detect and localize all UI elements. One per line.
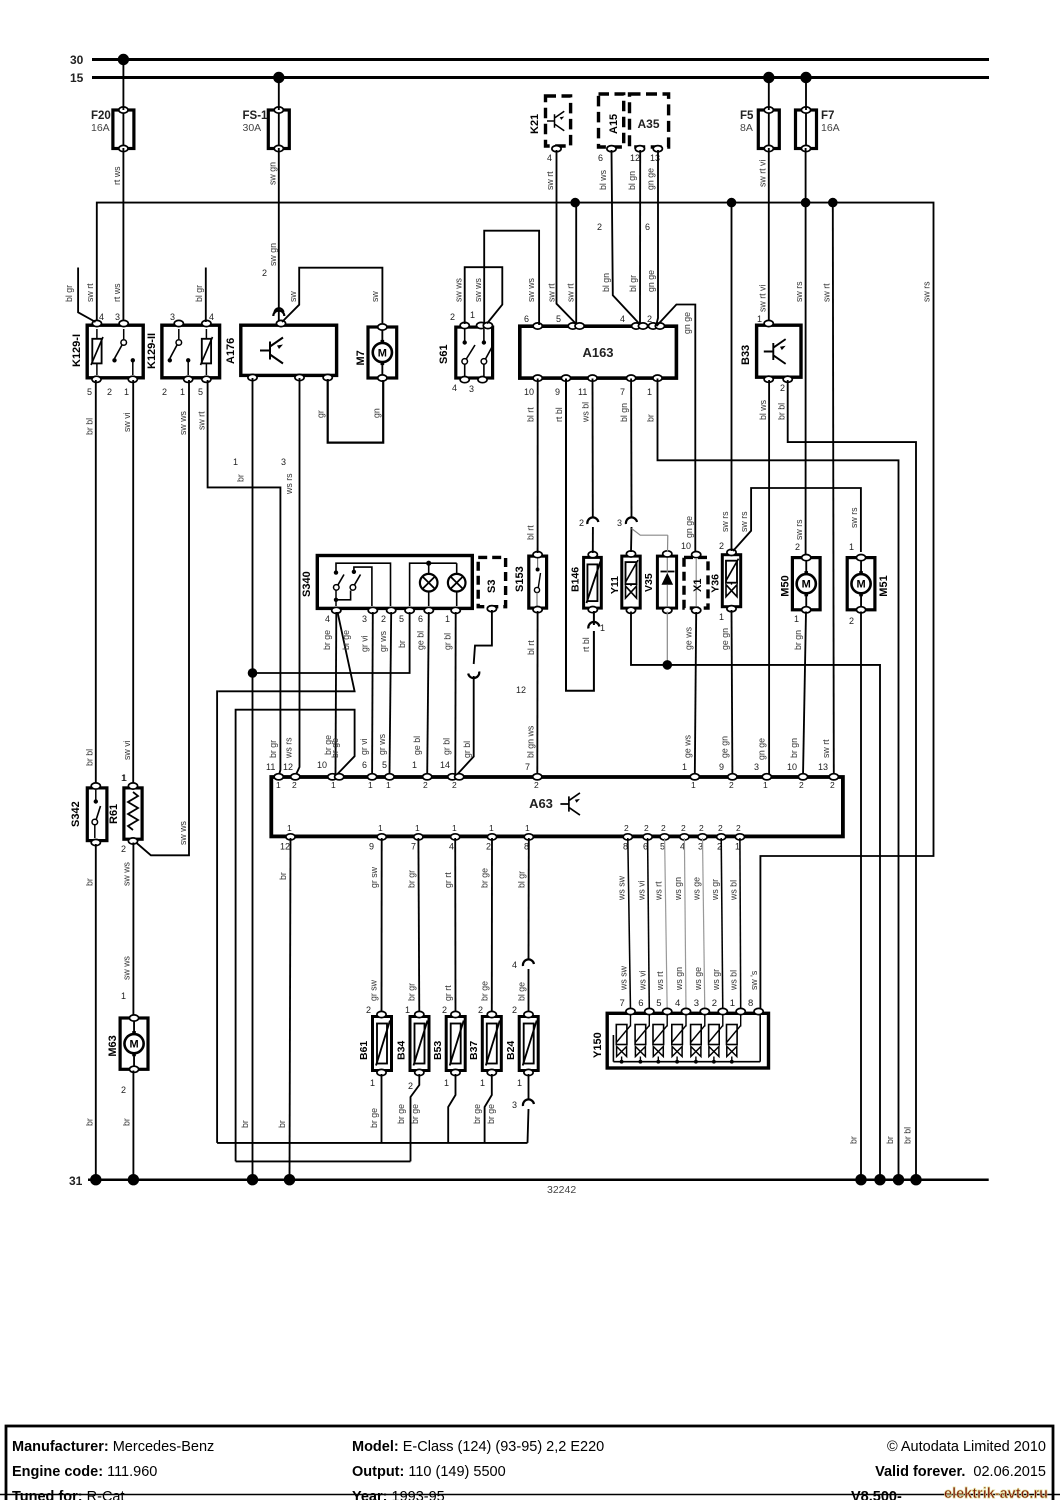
svg-text:1: 1 (525, 823, 530, 833)
svg-text:gr rt: gr rt (443, 985, 453, 1001)
svg-text:sw 's: sw 's (749, 970, 759, 990)
svg-text:1: 1 (276, 780, 281, 790)
svg-text:1: 1 (287, 823, 292, 833)
sensor B146 (570, 552, 602, 613)
wire br ge B37 to collector line 1 (472, 1074, 496, 1143)
wire bl gr stub to K129-I pin 4 (64, 268, 96, 323)
svg-text:br: br (646, 414, 656, 422)
svg-text:3: 3 (617, 518, 622, 528)
svg-text:5: 5 (198, 387, 203, 397)
A63 bottom pin 12 (280, 823, 295, 852)
svg-text:3: 3 (694, 998, 699, 1009)
sensor B33 (740, 325, 801, 377)
svg-text:1: 1 (489, 823, 494, 833)
svg-text:gn ge: gn ge (682, 312, 692, 334)
fuse F20 16A (91, 107, 134, 152)
junction dot rail/Y36 (727, 198, 737, 208)
svg-text:bl ws: bl ws (598, 169, 608, 190)
control unit A163 (520, 326, 677, 378)
svg-text:6: 6 (645, 222, 650, 232)
svg-text:1: 1 (691, 780, 696, 790)
svg-text:Y150: Y150 (592, 1032, 604, 1058)
K129-II top pins (170, 312, 214, 327)
svg-text:3: 3 (362, 614, 367, 624)
svg-text:1: 1 (331, 780, 336, 790)
svg-text:2: 2 (579, 518, 584, 528)
A63 bottom pin 9 (369, 823, 386, 852)
svg-text:1: 1 (757, 314, 762, 324)
wire br gn M50 pin 1 to A63 pin 10 (787, 612, 806, 777)
wire br ge B34 to collector line 2 (396, 1074, 420, 1161)
svg-text:ws ge: ws ge (693, 967, 703, 991)
svg-text:bl gn: bl gn (627, 171, 637, 190)
wire B24 to collector line 1 (512, 1074, 534, 1143)
A63 bottom pin 8b (623, 823, 632, 852)
wire ws bl A163 pin 11 to B146 pin 2 (579, 379, 598, 554)
junction dot rail/A163-5 (570, 198, 580, 208)
svg-text:1: 1 (480, 1078, 485, 1088)
svg-text:br: br (85, 1118, 95, 1126)
svg-text:ge ws: ge ws (683, 734, 693, 758)
svg-text:sw ws: sw ws (122, 861, 132, 886)
svg-text:bl gr: bl gr (628, 275, 638, 292)
wire br bl B33 pin 2 to bus 31 (777, 380, 917, 1180)
svg-text:gr ws: gr ws (378, 630, 388, 652)
electric motor M7 (355, 324, 397, 381)
resistor R61 (108, 773, 142, 854)
junction dot bus31 A176-br (247, 1174, 258, 1185)
switch S61 (438, 327, 493, 378)
svg-text:7: 7 (620, 998, 625, 1009)
svg-text:11: 11 (578, 387, 587, 397)
junction dot bus30/F20 (118, 54, 129, 65)
wire rt ws F20 to K129-I pin 3 (112, 60, 123, 323)
A163 bottom pin 11 (578, 375, 597, 397)
svg-text:bl gn: bl gn (619, 403, 629, 422)
svg-text:br gr: br gr (407, 983, 417, 1001)
svg-text:1: 1 (378, 823, 383, 833)
svg-text:br gr: br gr (407, 870, 417, 888)
svg-text:br ge: br ge (341, 630, 351, 650)
svg-text:1: 1 (470, 310, 475, 320)
wire sw ws K129-II pin 1 to R61 pin 2 (136, 380, 189, 855)
svg-text:7: 7 (525, 762, 530, 772)
svg-text:Valid forever. 02.06.2015: Valid forever. 02.06.2015 (875, 1464, 1046, 1480)
solenoid valve Y36 (709, 549, 740, 612)
A63 bottom pin 5b (660, 823, 669, 852)
A163 bottom pin 7 (620, 375, 636, 397)
svg-text:1: 1 (180, 387, 185, 397)
svg-text:9: 9 (369, 842, 374, 852)
wire sw rs F7 to M50 pin 2 (794, 78, 806, 555)
svg-text:3: 3 (512, 1100, 517, 1110)
svg-text:bl ge: bl ge (517, 982, 527, 1001)
svg-text:30: 30 (70, 53, 84, 67)
svg-text:Y36: Y36 (709, 574, 721, 593)
svg-text:A176: A176 (225, 338, 237, 364)
S61 bottom pin 4 (452, 377, 469, 394)
wire sw rt K21 pin 4 to A163 pin 5 (545, 146, 576, 324)
svg-text:1: 1 (124, 387, 129, 397)
svg-text:2: 2 (107, 387, 112, 397)
svg-text:5: 5 (382, 760, 387, 770)
wire sw vi K129-I pin 1 to R61 (122, 380, 133, 786)
svg-text:sw rt: sw rt (196, 411, 206, 430)
wire br A176 pin 1 to bus 31 (233, 378, 253, 1180)
svg-text:B34: B34 (396, 1041, 408, 1060)
A63 bottom pin 3b (698, 823, 707, 852)
A63 top pin 10b (798, 774, 807, 790)
svg-text:br ge: br ge (472, 1104, 482, 1124)
svg-text:B146: B146 (570, 567, 582, 592)
wire sw A176 to M7 pin 1 (282, 268, 382, 323)
A63 top pin 12 (291, 774, 300, 790)
wire sw rs rail to Y36 pin 2 (719, 203, 732, 551)
junction dot rail/F7-M50 (801, 198, 811, 208)
svg-text:2: 2 (534, 780, 539, 790)
svg-text:2: 2 (699, 823, 704, 833)
svg-text:7: 7 (620, 387, 625, 397)
svg-text:br gn: br gn (789, 738, 799, 758)
svg-text:2: 2 (162, 387, 167, 397)
svg-text:ws vi: ws vi (636, 880, 646, 901)
svg-text:Tuned for: R-Cat: Tuned for: R-Cat (12, 1489, 125, 1500)
sensor B53 (432, 1011, 465, 1088)
svg-text:8A: 8A (740, 122, 753, 134)
svg-text:K129-I: K129-I (71, 334, 83, 367)
junction dot bus15/F7 (800, 72, 811, 83)
svg-text:1: 1 (452, 823, 457, 833)
wire br A163 pin 1 to bus 31 (646, 379, 899, 1180)
A63 bottom pin 8 (524, 823, 533, 852)
svg-text:S3: S3 (486, 580, 498, 593)
svg-text:M51: M51 (878, 575, 890, 596)
svg-text:br: br (885, 1136, 895, 1144)
wire br S340 pin 5 to A176-br junction (253, 612, 410, 673)
Y150 top pins (620, 998, 764, 1015)
svg-text:M: M (802, 579, 811, 591)
junction dot bus31/br-bl (910, 1174, 921, 1185)
svg-text:6: 6 (362, 760, 367, 770)
svg-text:B37: B37 (468, 1041, 480, 1060)
svg-text:ws gr: ws gr (710, 879, 720, 901)
svg-text:br gr: br gr (268, 740, 278, 758)
svg-text:sw rs: sw rs (794, 519, 804, 540)
svg-text:sw rs: sw rs (849, 507, 859, 528)
wire br bl K129-I pin 5 to S342 (85, 380, 96, 784)
svg-text:12: 12 (630, 153, 640, 163)
wire ws bl A63 pin 1 to Y150 pin 1 (729, 838, 741, 1011)
svg-text:2: 2 (450, 312, 455, 322)
svg-text:2: 2 (366, 1005, 371, 1015)
injector unit Y150 (592, 1013, 769, 1068)
svg-text:2: 2 (799, 780, 804, 790)
svg-text:1: 1 (121, 991, 126, 1001)
wire ws gn A63 pin 4 to Y150 pin 4 (673, 838, 686, 1011)
K129-I bottom pins (87, 376, 137, 397)
sensor B61 (358, 1011, 392, 1088)
svg-text:br bl: br bl (903, 1127, 913, 1144)
wire sw gn FS-1 to A176 pin 2 (262, 78, 284, 325)
wire bl gn A35 pin 12 to A163 pin 4 (627, 146, 645, 324)
svg-text:2: 2 (478, 1005, 483, 1015)
svg-text:1: 1 (445, 614, 450, 624)
svg-text:4: 4 (209, 312, 214, 322)
svg-text:ge gn: ge gn (720, 736, 730, 758)
wire ws sw A63 pin 8 to Y150 pin 7 (617, 838, 631, 1011)
wire bl gn ws S153 to A63 pin 7 (516, 611, 538, 776)
A163 bottom pin 10 (524, 375, 542, 397)
svg-text:sw ws: sw ws (454, 277, 464, 302)
svg-text:2: 2 (736, 823, 741, 833)
svg-text:sw gn: sw gn (268, 162, 278, 185)
wire br S342 to bus 31 (85, 844, 96, 1180)
info table (0, 1426, 1060, 1500)
junction dot bus31 A63-12 (284, 1174, 295, 1185)
svg-text:1: 1 (794, 614, 799, 624)
A176 top pin 2 (274, 308, 285, 326)
svg-text:br ge: br ge (480, 981, 490, 1001)
sensor B24 (505, 1011, 538, 1088)
svg-text:2: 2 (712, 998, 717, 1009)
wire gr bl S340 pin 1 to A63 pin 14 (440, 612, 456, 775)
svg-text:M50: M50 (779, 575, 791, 596)
svg-text:br: br (277, 1120, 287, 1128)
svg-text:4: 4 (452, 383, 457, 393)
wire sw rt vi F5 to B33 pin 1 (757, 78, 769, 325)
svg-text:2: 2 (442, 1005, 447, 1015)
svg-text:sw rs: sw rs (739, 511, 749, 532)
svg-text:gr sw: gr sw (369, 979, 379, 1001)
A163 bottom pin 1 (647, 375, 662, 397)
svg-text:ws gr: ws gr (711, 969, 721, 991)
svg-text:br: br (278, 872, 288, 880)
svg-text:2: 2 (719, 541, 724, 551)
collector line 2 (236, 1160, 411, 1162)
control unit A35 (630, 94, 669, 147)
svg-text:1: 1 (412, 760, 417, 770)
wire gr gn A176 to M7 pin 2 (316, 379, 384, 443)
wire V35/Y11 bottom to bus 31 (631, 612, 880, 1180)
svg-text:A15: A15 (608, 114, 620, 134)
svg-text:10: 10 (681, 541, 691, 551)
svg-text:ge bl: ge bl (416, 631, 426, 650)
svg-text:1: 1 (517, 1078, 522, 1088)
svg-text:1: 1 (647, 387, 652, 397)
svg-text:sw rt: sw rt (547, 283, 557, 302)
svg-text:2: 2 (644, 823, 649, 833)
wire sw ws S61 pin 1 to A163 pin 6 (473, 231, 539, 325)
svg-text:sw rt: sw rt (566, 283, 576, 302)
A63 bottom pin 4 (449, 823, 460, 852)
wire br ge A63 pin 2 to B37 (478, 838, 492, 1016)
svg-text:2: 2 (681, 823, 686, 833)
svg-text:bl rt: bl rt (526, 407, 536, 422)
svg-text:ws rs: ws rs (284, 737, 294, 759)
junction dot bus31 M63 (128, 1174, 139, 1185)
svg-text:ws sw: ws sw (617, 875, 627, 901)
wire gr rt A63 pin 4 to B53 (442, 838, 456, 1016)
svg-text:1: 1 (233, 457, 238, 467)
svg-text:F7: F7 (821, 110, 834, 122)
bus 30 (70, 53, 989, 67)
svg-text:1: 1 (121, 773, 126, 783)
svg-text:br: br (236, 474, 246, 482)
svg-text:6: 6 (524, 314, 529, 324)
junction dot bus31 Y11-line (874, 1174, 885, 1185)
wire gn ge A35 pin 13 to A163 pin 2 (645, 146, 662, 324)
svg-text:1: 1 (763, 780, 768, 790)
wire gr vi S340 pin 3 to A63 pin 6 (359, 612, 373, 775)
svg-text:2: 2 (423, 780, 428, 790)
svg-text:gr bl: gr bl (442, 738, 452, 755)
sensor B37 (468, 1011, 501, 1088)
wire line C to A63 pin 10 (236, 710, 355, 1162)
svg-text:br: br (240, 1120, 250, 1128)
svg-text:bl gn: bl gn (601, 273, 611, 292)
svg-text:br: br (122, 1118, 132, 1126)
B33 bottom pins (764, 376, 792, 393)
svg-text:2: 2 (718, 823, 723, 833)
svg-text:sw ws: sw ws (178, 410, 188, 435)
svg-text:ws gn: ws gn (673, 877, 683, 901)
wire bl gr A63 pin 8 to B24 (512, 838, 534, 1016)
fuse F5 8A (740, 107, 779, 152)
A63 top pin 14 (448, 774, 464, 790)
svg-text:4: 4 (547, 153, 552, 163)
svg-text:2: 2 (661, 823, 666, 833)
wire sw ws R61 to M63 pin 1 (121, 843, 133, 1018)
svg-text:M: M (856, 579, 865, 591)
svg-text:br bl: br bl (85, 418, 95, 435)
A163 top pin 2 (647, 314, 665, 329)
svg-text:B33: B33 (740, 345, 752, 365)
wire bl ws B33 pin 2 to A63 pin 3 (754, 380, 769, 776)
svg-text:gr vi: gr vi (360, 635, 370, 652)
svg-text:1: 1 (415, 823, 420, 833)
svg-text:sw ws: sw ws (178, 820, 188, 845)
svg-text:sw ws: sw ws (526, 277, 536, 302)
svg-text:ws rs: ws rs (284, 473, 294, 495)
svg-text:M: M (129, 1039, 138, 1051)
svg-text:2: 2 (597, 222, 602, 232)
svg-text:br ge: br ge (330, 738, 340, 758)
svg-text:sw ws: sw ws (473, 277, 483, 302)
svg-text:30A: 30A (243, 122, 262, 134)
svg-text:2: 2 (780, 383, 785, 393)
svg-text:2: 2 (121, 1085, 126, 1095)
wire br ge B61 to collector line 1 (369, 1074, 382, 1143)
wire br ge B53 to collector line 1 (448, 1074, 455, 1143)
svg-text:4: 4 (512, 960, 517, 970)
svg-text:Output: 110 (149) 5500: Output: 110 (149) 5500 (352, 1464, 506, 1480)
svg-text:10: 10 (317, 760, 327, 770)
svg-text:A63: A63 (529, 796, 553, 811)
S61 top pin 1 (470, 310, 493, 329)
svg-text:M7: M7 (355, 350, 367, 365)
svg-text:V35: V35 (643, 573, 655, 592)
switch S342 (70, 783, 107, 846)
A63 top pin 1b (690, 774, 699, 790)
svg-text:br: br (849, 1136, 859, 1144)
svg-text:sw rs: sw rs (794, 281, 804, 302)
svg-text:12: 12 (516, 685, 526, 695)
junction dot bus15/F5 (763, 72, 774, 83)
fuse F7 16A (796, 107, 840, 152)
svg-text:1: 1 (600, 623, 605, 633)
svg-text:sw gn: sw gn (268, 243, 278, 266)
svg-text:5: 5 (556, 314, 561, 324)
svg-text:3: 3 (170, 312, 175, 322)
wire ws vi A63 pin 6 to Y150 pin 6 (636, 838, 649, 1011)
svg-text:3: 3 (469, 384, 474, 394)
svg-text:br ge: br ge (480, 868, 490, 888)
K129-I top pins (92, 312, 128, 327)
wire br gr A63 pin 7 to B34 (405, 838, 419, 1016)
svg-text:S342: S342 (70, 801, 82, 827)
switch S153 (514, 552, 547, 613)
svg-text:rt ws: rt ws (112, 283, 122, 302)
svg-text:S340: S340 (301, 571, 313, 597)
svg-text:Engine code: 111.960: Engine code: 111.960 (12, 1464, 157, 1480)
svg-text:br: br (85, 878, 95, 886)
bus 15 (70, 71, 989, 85)
svg-text:ws ge: ws ge (691, 877, 701, 901)
svg-text:S61: S61 (438, 344, 450, 364)
svg-text:4: 4 (675, 998, 680, 1009)
junction dot bus31 M51 (855, 1174, 866, 1185)
svg-text:FS-1: FS-1 (243, 110, 269, 122)
fuse FS-1 30A (243, 107, 290, 152)
svg-text:16A: 16A (91, 122, 110, 134)
svg-text:gn ge: gn ge (757, 738, 767, 760)
svg-text:S153: S153 (514, 566, 526, 592)
svg-text:ge bl: ge bl (412, 736, 422, 755)
wire ge ws X1 to A63 pin 1 (682, 612, 696, 776)
svg-text:gr ws: gr ws (377, 733, 387, 755)
svg-text:Model: E-Class (124) (93-95) 2: Model: E-Class (124) (93-95) 2,2 E220 (352, 1439, 604, 1455)
svg-text:6: 6 (638, 998, 643, 1009)
svg-text:32242: 32242 (547, 1184, 576, 1196)
svg-text:11: 11 (266, 762, 275, 772)
svg-text:sw rt vi: sw rt vi (758, 285, 768, 312)
svg-text:gr bl: gr bl (443, 633, 453, 650)
svg-text:rt ws: rt ws (112, 166, 122, 185)
S340 bottom pins (325, 607, 460, 624)
svg-text:2: 2 (452, 780, 457, 790)
A63 top pin 10 (328, 774, 344, 790)
wire br M51 pin 2 to bus 31 (849, 612, 862, 1180)
svg-text:K129-II: K129-II (146, 333, 158, 369)
svg-text:rt bl: rt bl (581, 637, 591, 652)
electric motor M63 (107, 1015, 148, 1073)
svg-text:14: 14 (440, 760, 450, 770)
svg-text:br: br (397, 640, 407, 648)
svg-text:1: 1 (849, 542, 854, 552)
svg-text:9: 9 (719, 762, 724, 772)
svg-text:1: 1 (682, 762, 687, 772)
A63 bottom pin 2b (717, 823, 726, 852)
A63 bottom pin 7 (411, 823, 423, 852)
wire ge bl S340 pin 6 to A63 pin 1 (412, 612, 429, 775)
svg-text:gr vi: gr vi (359, 738, 369, 755)
svg-text:2: 2 (729, 780, 734, 790)
svg-text:ws rt: ws rt (655, 971, 665, 991)
svg-text:br gn: br gn (793, 630, 803, 650)
A163 top pin 5 (556, 314, 584, 329)
svg-text:1: 1 (405, 1005, 410, 1015)
wire sw rt rail to A163 pin 5 (566, 203, 577, 324)
